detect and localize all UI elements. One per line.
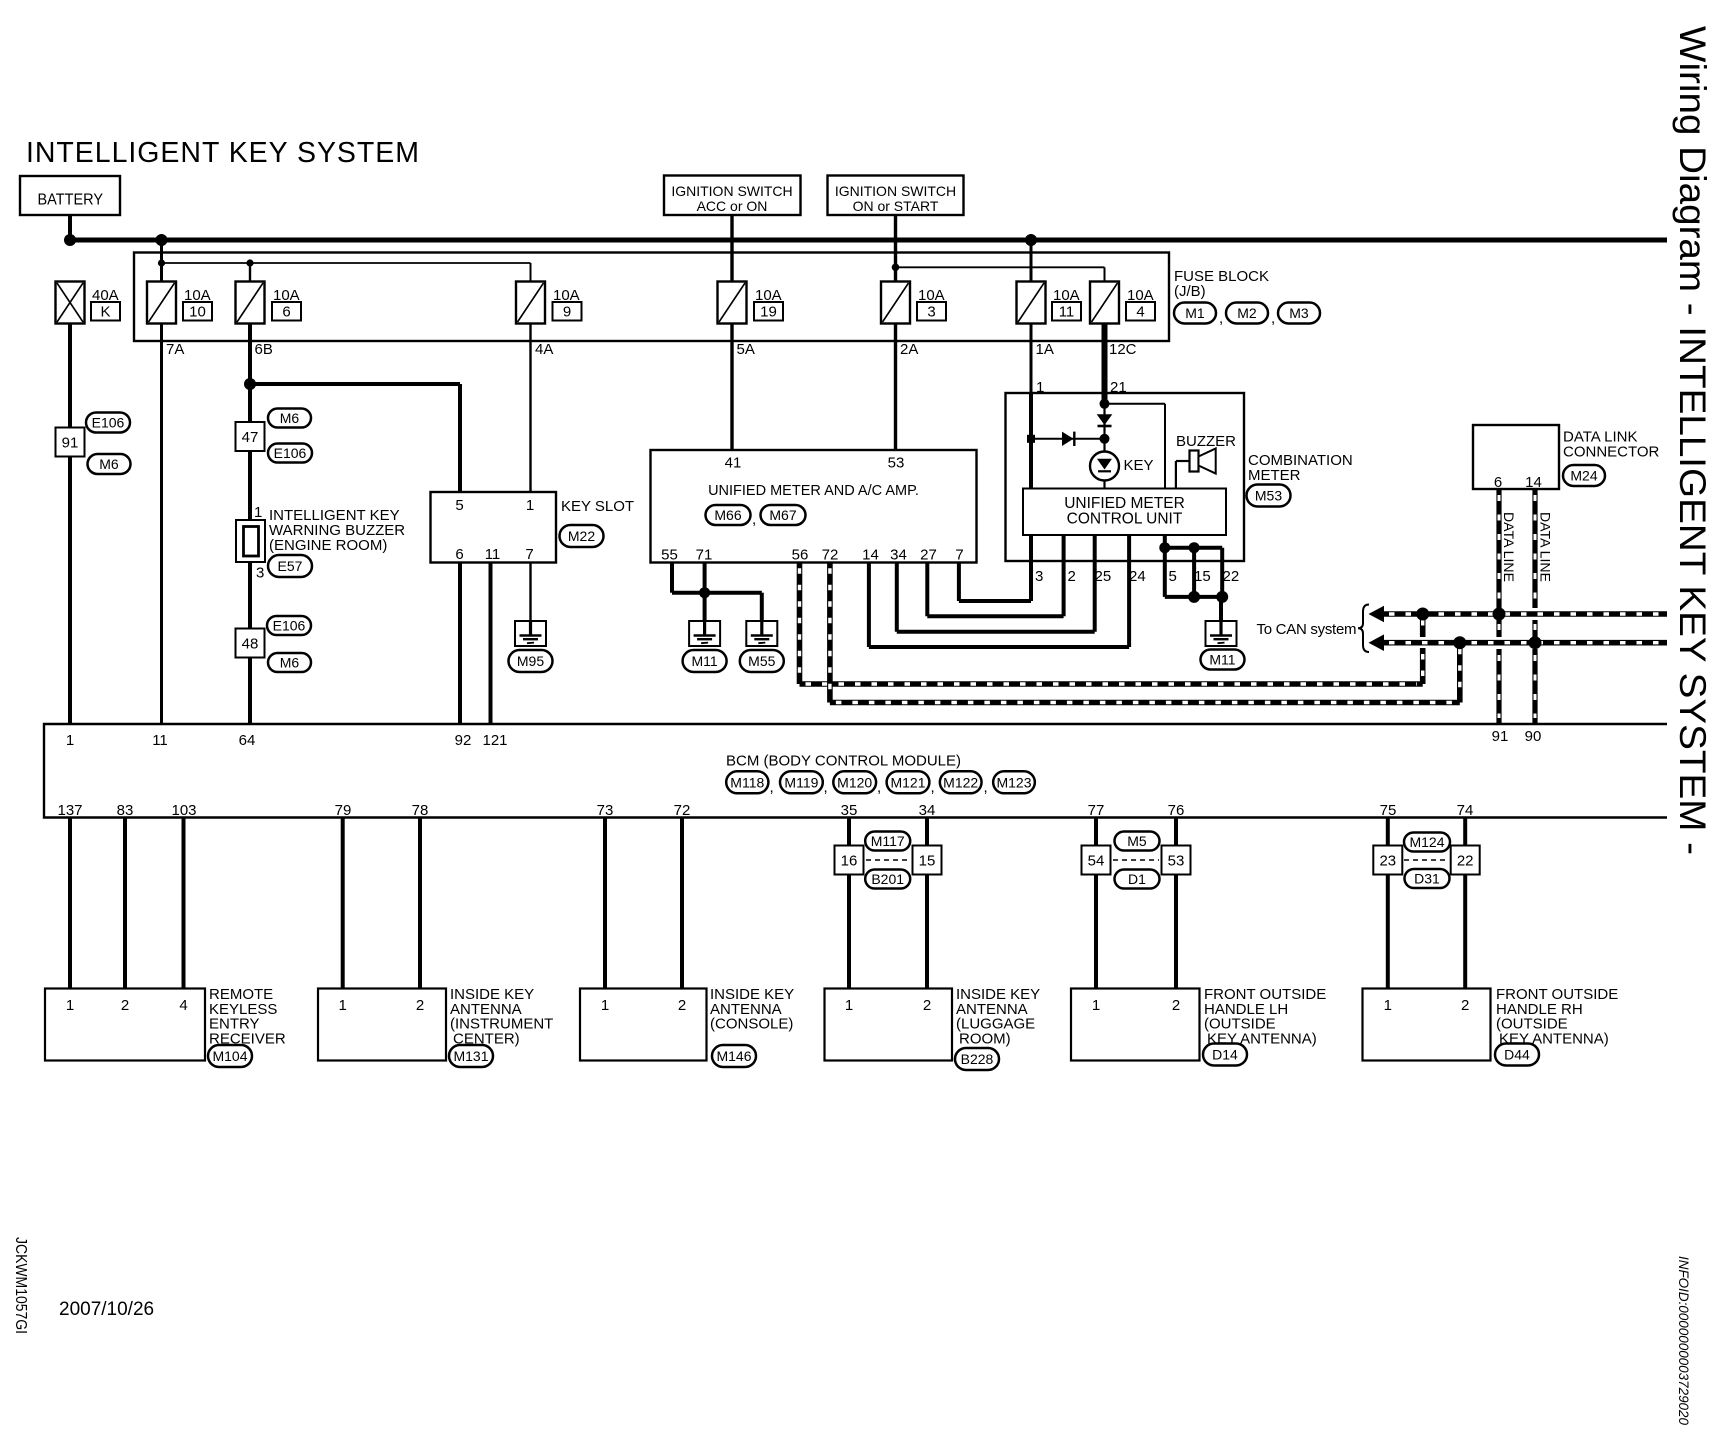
svg-text:M3: M3 (1289, 305, 1309, 321)
svg-text:1: 1 (1092, 997, 1100, 1014)
fuse number box 11 (1052, 302, 1081, 321)
svg-text:B201: B201 (871, 871, 904, 887)
wire fuse 10 7A to BCM pin 11 (160, 324, 163, 725)
fusible link K 40A (56, 282, 85, 324)
wire buzzer to control unit (1176, 460, 1190, 462)
svg-text:(J/B): (J/B) (1174, 283, 1206, 300)
wire amp pin 7 to meter pin 3 (957, 562, 961, 601)
connector oval M122 (940, 771, 982, 793)
svg-text:103: 103 (171, 802, 196, 819)
junction dot link fuse10 (158, 259, 165, 266)
connector oval M117 (865, 832, 910, 851)
connector 48 box (236, 629, 265, 658)
svg-text:M24: M24 (1570, 468, 1597, 484)
meter internal pin15 drop (1192, 548, 1196, 561)
svg-text:121: 121 (482, 732, 507, 749)
fuse 11 10A (1017, 282, 1046, 324)
svg-text:M11: M11 (1209, 652, 1235, 668)
svg-text:27: 27 (920, 547, 937, 564)
CAN L trunk arrow (1369, 606, 1385, 623)
front outside handle LH box (1071, 989, 1200, 1061)
svg-text:KEY SLOT: KEY SLOT (561, 498, 634, 515)
wire to meter ground (1219, 597, 1223, 621)
svg-text:1: 1 (66, 732, 74, 749)
meter internal ground link (1165, 546, 1222, 550)
meter internal pin24 wire (1127, 535, 1131, 561)
junction dot bus fuse10 feed (156, 234, 168, 246)
svg-text:3: 3 (927, 304, 935, 321)
unified meter and ac amp box (651, 450, 977, 563)
svg-text:15: 15 (919, 852, 936, 869)
connector oval M11 meter (1201, 650, 1245, 670)
svg-text:55: 55 (661, 547, 678, 564)
fuse 19 10A (718, 282, 747, 324)
meter internal junction dot mid (1100, 434, 1110, 444)
wire BCM 75 to handle RH pin 1 (1386, 818, 1390, 989)
BCM box (44, 724, 1667, 818)
svg-text:24: 24 (1129, 568, 1146, 585)
wire BCM 83 to receiver pin 2 (123, 818, 127, 989)
svg-text:5A: 5A (737, 341, 755, 358)
svg-text:M6: M6 (280, 410, 300, 426)
svg-text:2: 2 (1172, 997, 1180, 1014)
wire bus to fuse 10 (160, 240, 163, 282)
wire BCM 137 to receiver pin 1 (68, 818, 72, 989)
svg-text:2: 2 (416, 997, 424, 1014)
svg-text:M146: M146 (716, 1048, 751, 1064)
inline connector 23 (1373, 846, 1402, 875)
wire amp pin 34 to meter pin 25 (895, 562, 899, 631)
svg-text:79: 79 (335, 802, 352, 819)
connector oval M131 (449, 1045, 493, 1067)
svg-text:12C: 12C (1109, 341, 1137, 358)
wire fuse 11 1A to meter pin 1 (1030, 324, 1033, 394)
junction dot bus fuse11 feed (1025, 234, 1037, 246)
CAN L trunk line (1383, 611, 1667, 617)
junction dot link fuse3 (892, 264, 900, 272)
fuse number box 6 (272, 302, 301, 321)
meter internal pin25 wire (1093, 535, 1097, 561)
svg-text:D1: D1 (1128, 871, 1146, 887)
svg-text:73: 73 (597, 802, 614, 819)
meter internal branch to control unit (1105, 403, 1166, 405)
svg-text:,: , (1219, 310, 1223, 327)
wire branch to key slot pin 5 (250, 382, 460, 386)
inside key antenna instrument center box (318, 989, 446, 1061)
data line wire 14 (1532, 489, 1537, 608)
data link connector box (1473, 425, 1559, 489)
svg-text:M2: M2 (1237, 305, 1257, 321)
svg-text:11: 11 (485, 546, 501, 563)
junction dot CAN L riser (1416, 608, 1429, 621)
wire link to fuse 4 (1104, 267, 1106, 282)
svg-text:3: 3 (256, 565, 264, 582)
intelligent key warning buzzer (236, 520, 265, 562)
wire BCM 78 to instrument antenna pin 2 (418, 818, 422, 989)
CAN wire amp pin 56 horizontal (800, 681, 1423, 687)
wire BCM 79 to instrument antenna pin 1 (341, 818, 345, 989)
svg-text:47: 47 (242, 429, 259, 446)
connector oval M3 (1278, 303, 1320, 324)
svg-text:41: 41 (725, 455, 742, 472)
fuse 4 10A (1090, 282, 1119, 324)
svg-text:34: 34 (890, 547, 907, 564)
wire meter pin3 down (1029, 561, 1033, 601)
svg-text:11: 11 (152, 732, 168, 749)
wire fusible link to BCM pin 1 (68, 324, 72, 725)
svg-text:D44: D44 (1504, 1047, 1530, 1063)
svg-text:UNIFIED METER: UNIFIED METER (1064, 495, 1185, 512)
junction dot battery (64, 234, 76, 246)
connector oval M22 (560, 525, 604, 547)
svg-text:53: 53 (1168, 852, 1185, 869)
CAN wire riser to CAN H line (1457, 643, 1463, 703)
svg-text:M131: M131 (453, 1048, 488, 1064)
svg-text:DATA LINE: DATA LINE (1538, 512, 1554, 582)
connector oval E106 at 48 (267, 616, 311, 635)
connector oval B201 (865, 870, 910, 889)
ignition switch ACC or ON box (664, 176, 801, 216)
connector 47 box (236, 422, 265, 451)
wire KEY indicator to control unit (1103, 481, 1105, 489)
diode vertical in meter (1097, 414, 1113, 425)
connector oval M6 at 48 (268, 653, 311, 672)
svg-text:1: 1 (526, 497, 534, 514)
svg-text:25: 25 (1095, 568, 1112, 585)
fuse 6 10A (236, 282, 265, 324)
inside key antenna console box (580, 989, 707, 1061)
svg-text:K: K (100, 304, 110, 321)
svg-text:M123: M123 (996, 774, 1031, 790)
connector oval M118 (726, 771, 768, 793)
svg-text:4: 4 (1136, 304, 1144, 321)
combination meter box (1006, 393, 1245, 561)
connector oval D44 (1495, 1044, 1539, 1066)
connector oval M120 (833, 771, 876, 793)
svg-text:To CAN system: To CAN system (1257, 621, 1357, 638)
svg-text:1: 1 (1384, 997, 1392, 1014)
svg-text:INFOID:0000000003729020: INFOID:0000000003729020 (1676, 1256, 1691, 1425)
connector oval M121 (887, 771, 930, 793)
connector oval M95 (509, 650, 553, 672)
svg-text:2: 2 (678, 997, 686, 1014)
inline connector 22 (1451, 846, 1480, 875)
junction dot amp grounds (699, 587, 710, 598)
wire BCM 73 to console antenna pin 1 (603, 818, 607, 989)
svg-text:15: 15 (1194, 568, 1211, 585)
wire key slot pin 11 to BCM pin 121 (489, 563, 493, 725)
svg-text:ON or START: ON or START (853, 198, 939, 214)
svg-text:4A: 4A (535, 341, 553, 358)
wire meter pin22 down to ground (1220, 561, 1224, 597)
fusible link letter box K (91, 302, 120, 321)
svg-text:91: 91 (1492, 728, 1509, 745)
fuse feed link line right (896, 266, 1105, 268)
svg-text:M22: M22 (568, 528, 595, 544)
wire bus to fuse 11 (1030, 240, 1033, 282)
junction dot meter pin15 (1189, 542, 1200, 553)
wire BCM 76 to handle LH pin 2 (1174, 818, 1178, 989)
svg-text:77: 77 (1088, 802, 1105, 819)
CAN wire amp pin 56 vertical (797, 562, 803, 684)
svg-text:E106: E106 (274, 445, 307, 461)
svg-text:6: 6 (455, 546, 463, 563)
fuse number box 9 (553, 302, 582, 321)
unified meter control unit box (1023, 489, 1226, 536)
svg-text:53: 53 (888, 455, 905, 472)
meter internal pin22 drop (1220, 548, 1224, 561)
svg-text:CONNECTOR: CONNECTOR (1563, 444, 1660, 461)
wire key slot pin 7 to ground (529, 563, 531, 622)
svg-text:6: 6 (282, 304, 290, 321)
wire link to fuse 6 (249, 263, 251, 282)
svg-text:48: 48 (242, 635, 259, 652)
meter internal pin3 wire (1029, 535, 1033, 561)
svg-text:UNIFIED METER AND A/C AMP.: UNIFIED METER AND A/C AMP. (708, 483, 919, 499)
fuse block outline (134, 253, 1169, 342)
junction dot CAN H riser (1453, 636, 1466, 649)
svg-text:E57: E57 (278, 558, 303, 574)
KEY indicator circle (1090, 452, 1119, 481)
svg-text:M119: M119 (784, 774, 818, 790)
key slot box (431, 492, 557, 563)
connector oval E106 upper left (86, 413, 130, 433)
svg-text:M66: M66 (714, 507, 741, 523)
svg-text:10: 10 (189, 304, 206, 321)
svg-text:B228: B228 (961, 1051, 994, 1067)
svg-text:72: 72 (822, 547, 839, 564)
junction dot branch key slot (244, 378, 256, 390)
front outside handle RH box (1363, 989, 1491, 1061)
svg-text:E106: E106 (92, 415, 125, 431)
connector oval M6 lower left (88, 454, 131, 474)
inline connector 16 (835, 846, 864, 875)
svg-text:M122: M122 (943, 774, 978, 790)
svg-text:64: 64 (239, 732, 256, 749)
battery box (20, 176, 120, 215)
svg-text:D31: D31 (1414, 871, 1440, 887)
fuse number box 19 (754, 302, 783, 321)
wire amp pin 55 (670, 562, 674, 592)
svg-text:INTELLIGENT KEY SYSTEM: INTELLIGENT KEY SYSTEM (26, 137, 419, 169)
svg-text:7: 7 (955, 547, 963, 564)
svg-text:2: 2 (923, 997, 931, 1014)
connector oval M53 (1247, 485, 1291, 507)
junction dot meter ground link 15 (1188, 591, 1200, 603)
wire to ground M55 (705, 591, 762, 595)
inline connector dashes 23-22 (1404, 859, 1449, 861)
wire amp pin 27 to meter pin 2 (925, 562, 929, 616)
wire fuse 19 5A to amp pin 41 (730, 324, 733, 451)
svg-text:54: 54 (1088, 852, 1105, 869)
connector oval M1 (1174, 303, 1216, 324)
svg-text:IGNITION SWITCH: IGNITION SWITCH (671, 183, 792, 199)
svg-text:90: 90 (1525, 728, 1542, 745)
connector oval M67 (761, 505, 806, 525)
svg-text:M120: M120 (837, 774, 872, 790)
svg-text:,: , (824, 779, 828, 796)
svg-text:2: 2 (1461, 997, 1469, 1014)
wire meter pin25 down (1093, 561, 1097, 632)
svg-text:M1: M1 (1185, 305, 1205, 321)
svg-text:,: , (752, 511, 756, 528)
wire meter pin15 down (1192, 561, 1196, 597)
svg-text:,: , (770, 779, 774, 796)
fuse feed link line left (162, 262, 531, 264)
meter internal pin5 drop (1163, 548, 1167, 561)
ignition switch ON or START box (828, 176, 964, 216)
svg-text:METER: METER (1248, 467, 1301, 484)
remote keyless entry receiver box (45, 989, 205, 1061)
svg-text:BUZZER: BUZZER (1176, 433, 1236, 450)
svg-text:,: , (984, 779, 988, 796)
connector oval M2 (1226, 303, 1268, 324)
svg-text:6: 6 (1494, 474, 1502, 491)
svg-text:M11: M11 (691, 653, 717, 669)
connector oval E106 at 47 (268, 444, 312, 463)
ground amp M11 (689, 621, 720, 646)
ground M95 (515, 621, 546, 646)
svg-text:9: 9 (563, 304, 571, 321)
wire fuse 6 6B down to BCM pin 64 (248, 324, 252, 725)
wire amp pin 71 to ground M11 (703, 562, 707, 621)
svg-text:74: 74 (1457, 802, 1474, 819)
svg-text:IGNITION SWITCH: IGNITION SWITCH (835, 183, 956, 199)
inline connector dashes 54-53 (1113, 859, 1159, 861)
junction dot meter pin5 (1159, 542, 1170, 553)
svg-text:ACC or ON: ACC or ON (697, 198, 768, 214)
wire fuse 3 2A to amp pin 53 (894, 324, 897, 451)
svg-text:M121: M121 (890, 774, 925, 790)
svg-text:16: 16 (841, 852, 858, 869)
fuse number box 10 (183, 302, 212, 321)
meter internal branch diode wire (1031, 438, 1105, 440)
svg-text:72: 72 (674, 802, 691, 819)
svg-text:78: 78 (412, 802, 429, 819)
connector oval M146 (712, 1045, 756, 1067)
svg-text:75: 75 (1380, 802, 1397, 819)
svg-text:83: 83 (117, 802, 134, 819)
svg-text:92: 92 (455, 732, 472, 749)
svg-text:34: 34 (919, 802, 936, 819)
junction dot CAN L data line 6 (1493, 608, 1506, 621)
bus line battery feed (68, 238, 1667, 243)
svg-text:6B: 6B (255, 341, 273, 358)
svg-text:M5: M5 (1127, 833, 1147, 849)
svg-text:5: 5 (1169, 568, 1177, 585)
wire BCM 74 to handle RH pin 2 (1463, 818, 1467, 989)
svg-text:(CONSOLE): (CONSOLE) (710, 1016, 793, 1033)
CAN wire amp pin 72 vertical (827, 562, 833, 702)
svg-text:4: 4 (179, 997, 187, 1014)
svg-text:M55: M55 (748, 653, 775, 669)
svg-text:14: 14 (862, 547, 879, 564)
svg-text:M104: M104 (212, 1048, 247, 1064)
svg-text:1A: 1A (1036, 341, 1054, 358)
wire amp pin 14 to meter pin 24 (867, 562, 871, 647)
fuse 3 10A (881, 282, 910, 324)
wire meter pin2 down (1062, 561, 1066, 616)
connector oval E57 (268, 555, 312, 577)
connector oval M66 (706, 505, 751, 525)
data line wire 6 (1496, 489, 1501, 608)
wire BCM 34 to luggage antenna pin 2 (925, 818, 929, 989)
svg-text:(ENGINE ROOM): (ENGINE ROOM) (269, 537, 387, 554)
CAN H trunk arrow (1369, 634, 1385, 651)
diode horizontal in meter (1062, 432, 1074, 446)
CAN wire riser to CAN L line (1420, 648, 1426, 684)
svg-text:137: 137 (57, 802, 82, 819)
CAN wire amp pin 72 horizontal (830, 700, 1460, 706)
connector 91 box (56, 428, 85, 457)
buzzer symbol (1190, 451, 1199, 472)
svg-text:,: , (877, 779, 881, 796)
meter internal pin2 wire (1062, 535, 1066, 561)
svg-text:BATTERY: BATTERY (38, 192, 104, 209)
meter internal junction square on pin1 wire (1027, 435, 1035, 443)
svg-text:23: 23 (1379, 852, 1396, 869)
svg-text:2: 2 (1068, 568, 1076, 585)
connector oval M55 (740, 650, 784, 672)
svg-text:BCM (BODY CONTROL MODULE): BCM (BODY CONTROL MODULE) (726, 753, 961, 770)
svg-text:1: 1 (339, 997, 347, 1014)
wire BCM 35 to luggage antenna pin 1 (847, 818, 851, 989)
meter internal pin1 wire (1029, 393, 1033, 489)
svg-text:M118: M118 (730, 774, 764, 790)
connector oval M11 amp (683, 650, 727, 672)
svg-text:M117: M117 (871, 833, 905, 849)
wire BCM 72 to console antenna pin 2 (680, 818, 684, 989)
wire link to fuse 9 (530, 263, 532, 282)
svg-text:71: 71 (696, 547, 713, 564)
wire ignition ACC to fuse 19 (730, 215, 733, 282)
connector oval M104 (208, 1045, 252, 1067)
svg-text:19: 19 (760, 304, 777, 321)
fuse 10 10A (147, 282, 176, 324)
meter internal pin5 wire (1163, 535, 1167, 548)
connector oval M119 (780, 771, 823, 793)
svg-text:14: 14 (1525, 474, 1542, 491)
connector oval M124 (1404, 833, 1450, 852)
wire key slot pin 6 to BCM pin 92 (458, 563, 462, 725)
svg-text:M6: M6 (99, 456, 119, 472)
wire BCM 103 to receiver pin 4 (182, 818, 186, 989)
svg-text:1: 1 (66, 997, 74, 1014)
svg-text:D14: D14 (1212, 1047, 1238, 1063)
svg-text:1: 1 (845, 997, 853, 1014)
svg-text:11: 11 (1059, 304, 1075, 321)
svg-text:7: 7 (525, 546, 533, 563)
svg-text:2: 2 (121, 997, 129, 1014)
svg-text:M124: M124 (1409, 834, 1444, 850)
wire BCM 77 to handle LH pin 1 (1094, 818, 1098, 989)
junction dot link fuse6 (246, 259, 253, 266)
svg-text:3: 3 (1035, 568, 1043, 585)
brace to CAN (1358, 605, 1369, 653)
connector oval M5 (1115, 832, 1160, 851)
connector oval B228 (955, 1048, 999, 1070)
svg-text:91: 91 (62, 434, 79, 451)
svg-text:CONTROL UNIT: CONTROL UNIT (1067, 511, 1183, 528)
svg-text:5: 5 (455, 497, 463, 514)
svg-text:56: 56 (792, 547, 809, 564)
svg-text:M67: M67 (769, 507, 796, 523)
fuse 9 10A (516, 282, 545, 324)
fuse number box 3 (917, 302, 946, 321)
inline connector 15 (913, 846, 942, 875)
svg-text:76: 76 (1168, 802, 1185, 819)
svg-text:22: 22 (1457, 852, 1474, 869)
